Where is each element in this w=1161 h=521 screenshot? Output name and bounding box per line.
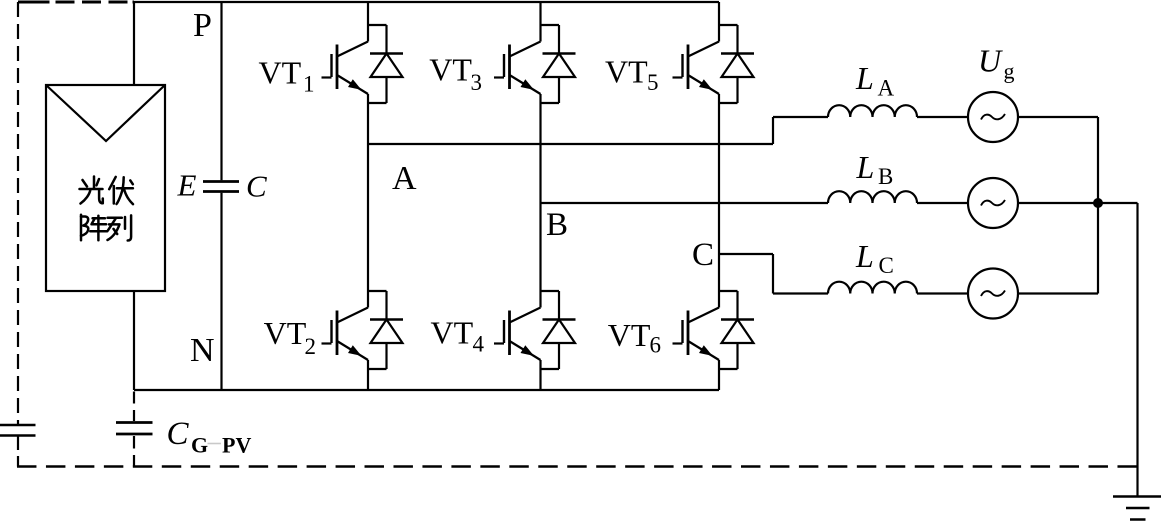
inductor LC [828,282,917,294]
svg-text:3: 3 [471,70,483,95]
svg-text:C: C [692,237,714,273]
transistor VT5 [673,25,755,103]
AC source C [968,269,1018,319]
wire: PV+ to top rail [133,2,135,85]
AC source A [968,92,1018,142]
ground [1113,497,1161,520]
dashed parasitic loop: top segment [18,1,134,4]
svg-text:VT: VT [264,315,307,351]
capacitor C (DC link) [203,182,239,192]
dashed parasitic loop: left segment [17,2,19,424]
dashed parasitic loop: bottom segment [17,465,1137,467]
svg-text:L: L [855,238,874,274]
transistor VT3 [494,25,576,103]
AC source B [968,178,1018,228]
capacitor C_G-PV lead (dashed) [133,392,135,422]
svg-text:2: 2 [305,334,317,359]
wire: LC to source C [917,292,968,294]
svg-text:G: G [191,433,208,458]
wire: neutral bus vertical [1097,117,1099,294]
svg-text:C: C [167,416,190,452]
PV array label char 光 [80,177,103,204]
wire: DC-link capacitor branch [220,2,222,390]
svg-text:VT: VT [429,52,472,88]
svg-text:6: 6 [650,333,662,358]
transistor VT6 [673,291,755,369]
svg-text:E: E [177,168,197,203]
svg-text:L: L [855,60,874,96]
svg-text:VT: VT [608,317,651,353]
svg-text:VT: VT [259,55,302,91]
PV array box [46,85,165,291]
svg-text:5: 5 [647,70,659,95]
transistor VT2 [322,291,404,369]
inductor LB [828,191,917,203]
inductor LA [828,105,917,117]
svg-text:U: U [978,43,1003,79]
svg-text:C: C [246,169,267,204]
parasitic capacitor (left, in dashed loop) [0,425,36,436]
svg-text:g: g [1004,59,1015,84]
capacitor C_G-PV [116,423,153,435]
node A wire [368,117,828,144]
node C wire [719,254,828,294]
wire: LA to source A [917,116,968,118]
svg-text:B: B [878,164,893,189]
wire: bottom DC rail N [134,389,719,391]
svg-text:1: 1 [303,72,315,97]
node B wire [541,202,829,204]
dashed parasitic loop: left segment below capacitor [17,436,19,467]
PV array label char 伏 [109,177,133,204]
wire: top DC rail P [133,1,719,3]
svg-text:N: N [190,332,215,369]
svg-text:A: A [878,76,895,101]
svg-text:VT: VT [431,315,474,351]
wire: leg 2 [539,2,541,390]
wire: PV- to N rail [133,291,135,390]
transistor VT4 [494,291,576,369]
label C_G-PV dash [208,443,222,445]
PV array label char 阵 [81,215,107,241]
wire: leg 1 [367,2,369,390]
wire: LB to source B [917,202,968,204]
svg-text:C: C [879,253,894,278]
svg-text:B: B [546,207,568,243]
svg-text:A: A [392,160,417,197]
svg-text:VT: VT [605,54,648,90]
wire: neutral to ground [1098,203,1138,496]
wire: leg 3 [718,2,720,390]
PV array chevron [46,85,165,141]
PV array label char 列 [108,215,132,240]
transistor VT1 [322,25,404,103]
svg-text:P: P [193,7,212,44]
capacitor C_G-PV lower lead (dashed) [133,436,135,467]
svg-text:4: 4 [473,332,485,357]
svg-text:L: L [856,149,875,185]
svg-text:PV: PV [222,433,251,458]
wire: source B to neutral bus [1018,202,1098,204]
wire: source A to neutral bus [1018,116,1098,118]
wire: source C to neutral bus [1018,292,1098,294]
junction dot [1093,198,1103,208]
